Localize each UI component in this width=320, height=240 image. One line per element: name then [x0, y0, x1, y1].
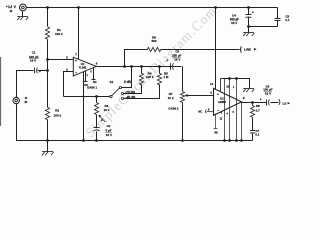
- svg-text:2.7: 2.7: [256, 108, 261, 112]
- label pin 3: [66, 56, 68, 60]
- wire C4 bottom lead: [248, 18, 250, 27]
- resistor R2: [45, 107, 49, 119]
- svg-text:+: +: [75, 59, 77, 63]
- svg-text:16 V: 16 V: [30, 59, 36, 63]
- wire C1 to bias node: [38, 70, 48, 72]
- label pin 7: [75, 52, 77, 56]
- node rail-pin7: [77, 6, 80, 9]
- label R2: [54, 109, 62, 118]
- capacitor C5: [275, 19, 281, 21]
- label pin 3: [221, 112, 223, 115]
- capacitor C2: [94, 128, 100, 131]
- wire U1 pin4 to ground rail: [83, 72, 85, 141]
- switch S1 pole: [110, 95, 112, 97]
- wire +12V rail: [27, 7, 278, 9]
- op-amp U2: [214, 88, 242, 115]
- wire U2 gnd pin d: [241, 103, 243, 141]
- node bias-pin3: [46, 58, 49, 61]
- label -40 dB: [126, 96, 136, 100]
- svg-text:+: +: [39, 70, 41, 74]
- node rail-R2gnd: [46, 139, 49, 142]
- wire R8 top lead: [252, 103, 254, 106]
- svg-text:U1: U1: [81, 62, 85, 66]
- node bus-riser: [123, 65, 126, 68]
- resistor R6: [147, 47, 160, 51]
- connector LINE out: [240, 46, 241, 52]
- node pin4-rail: [82, 139, 85, 142]
- capacitor C4: [246, 15, 252, 18]
- svg-text:560: 560: [151, 39, 156, 43]
- wire C4-C5 bottom: [249, 26, 278, 28]
- wire U1 output bus: [96, 66, 182, 68]
- capacitor C3: [171, 63, 174, 70]
- capacitor C6: [267, 100, 270, 106]
- node gndpin-b: [228, 139, 231, 142]
- wire R3 top lead: [96, 97, 98, 103]
- node rail-R1: [46, 6, 49, 9]
- label GAIN 2: [168, 106, 178, 110]
- connector J1 input jack: [13, 97, 19, 103]
- pin 1 NC stub: [84, 71, 88, 82]
- svg-text:1 M: 1 M: [163, 75, 169, 79]
- node C2-rail: [95, 139, 98, 142]
- label C1 plus: [39, 70, 41, 74]
- wire C7 to rail: [252, 134, 254, 141]
- svg-text:16 V: 16 V: [106, 133, 112, 137]
- label 0 dB: [124, 80, 132, 84]
- node pin4-feedback cross: [83, 96, 85, 98]
- wire U2 top ground: [221, 79, 250, 89]
- connector LS out: [279, 99, 280, 105]
- svg-text:C2: C2: [106, 124, 110, 128]
- label C5: [285, 14, 290, 22]
- label pin 11: [233, 86, 235, 89]
- label U2 bottom NC: [214, 131, 218, 134]
- label LINE: [244, 47, 251, 51]
- R7 wiper arrow: [184, 94, 213, 97]
- potentiometer R3: [94, 103, 98, 115]
- svg-text:0.1: 0.1: [255, 132, 259, 136]
- label R4: [146, 71, 154, 79]
- node gndpin-a: [223, 139, 226, 142]
- wire C5 bottom lead: [277, 21, 279, 27]
- svg-text:+: +: [166, 58, 168, 62]
- node bus-R5: [158, 65, 161, 68]
- svg-text:C1: C1: [32, 50, 36, 54]
- label R5: [163, 71, 169, 79]
- wire pin3: [48, 59, 74, 61]
- svg-text:16 V: 16 V: [231, 21, 237, 25]
- svg-text:16 V: 16 V: [174, 58, 180, 62]
- label pin 6: [96, 61, 98, 65]
- label C7: [255, 129, 259, 136]
- svg-text:10 k: 10 k: [168, 96, 174, 100]
- label C4: [230, 13, 240, 25]
- wire J1 ground lead: [17, 104, 48, 141]
- svg-text:NC: NC: [198, 110, 202, 114]
- svg-text:LS: LS: [283, 101, 287, 105]
- U2 pin7 NC stub: [214, 114, 218, 129]
- label +12 V: [6, 5, 17, 9]
- svg-text:100 k: 100 k: [146, 75, 154, 79]
- label pin 5: [90, 71, 92, 74]
- svg-text:-40 dB: -40 dB: [126, 96, 136, 100]
- label C1: [29, 50, 39, 62]
- svg-text:+: +: [260, 98, 262, 102]
- label -20 dB: [125, 90, 135, 94]
- svg-text:16 V: 16 V: [265, 92, 271, 96]
- wire C2 to rail: [96, 132, 98, 141]
- resistor R5: [157, 73, 161, 85]
- wire bus corner to R7: [182, 67, 184, 92]
- node U2top-3: [235, 77, 238, 80]
- label pin 10: [226, 85, 229, 88]
- pin 5 NC stub: [92, 68, 96, 80]
- node feedback-R3: [95, 95, 98, 98]
- label U2 pin6 NC: [198, 110, 202, 114]
- label J2: [9, 9, 12, 13]
- svg-text:NC: NC: [93, 80, 97, 84]
- switch contact 0dB: [119, 86, 121, 88]
- svg-text:+: +: [217, 93, 219, 97]
- svg-text:GAIN 1: GAIN 1: [87, 85, 97, 89]
- wire pin2 feedback down: [64, 72, 74, 97]
- label C2: [105, 124, 112, 137]
- svg-text:100 k: 100 k: [55, 32, 63, 36]
- label C2 plus: [101, 118, 103, 122]
- R3 wiper arrow: [98, 115, 105, 122]
- switch contact -20dB: [121, 92, 123, 94]
- wire pin7 from rail: [78, 8, 80, 60]
- label GAIN 1: [87, 85, 97, 89]
- wire R2 bottom lead: [47, 120, 49, 141]
- label R6: [151, 36, 156, 44]
- label R3: [104, 104, 110, 112]
- resistor R8: [250, 106, 254, 118]
- wire U2 gnd pin c: [236, 79, 238, 141]
- node out-R8: [251, 101, 254, 104]
- label J1: [24, 96, 27, 104]
- potentiometer R7: [180, 92, 184, 103]
- wire U2 output: [242, 102, 267, 104]
- wire R4 top lead: [141, 67, 143, 74]
- node gndpin-c: [235, 139, 238, 142]
- label C6: [263, 85, 273, 96]
- svg-text:10 k: 10 k: [104, 108, 110, 112]
- ground at U2 top: [243, 89, 254, 93]
- svg-text:100 k: 100 k: [54, 113, 62, 117]
- svg-text:+: +: [252, 10, 254, 14]
- capacitor C1: [35, 68, 38, 74]
- label S1: [110, 80, 114, 84]
- wire riser to R6: [125, 50, 148, 67]
- scan edge artifact: [0, 57, 1, 126]
- node U2top-2: [228, 77, 231, 80]
- ground at C4: [243, 27, 254, 37]
- label R7: [168, 92, 174, 100]
- wire -20dB to R4: [124, 85, 142, 94]
- label NC pin5: [93, 80, 97, 84]
- label C3: [172, 50, 182, 62]
- svg-text:LM380: LM380: [218, 100, 227, 104]
- label pin 2: [66, 67, 68, 71]
- resistor R4: [139, 73, 143, 85]
- svg-text:U2: U2: [220, 96, 224, 100]
- wire U2 pin10 stub: [220, 79, 222, 92]
- node bus-R4: [140, 65, 143, 68]
- wire U2 pin14 from rail: [215, 8, 217, 90]
- LS arrow: [288, 102, 291, 104]
- svg-text:GAIN 2: GAIN 2: [168, 106, 178, 110]
- resistor R1: [45, 27, 49, 39]
- svg-text:NC: NC: [214, 131, 218, 134]
- label pin 12: [220, 118, 223, 121]
- wire ground rail: [17, 140, 253, 142]
- wire C6 to LS: [271, 102, 279, 104]
- label R1: [55, 28, 63, 36]
- svg-text:IN: IN: [25, 100, 28, 104]
- ground at J2: [17, 11, 28, 21]
- node rail-C4: [247, 6, 250, 9]
- label R8: [256, 104, 261, 112]
- wire R7 bottom lead: [182, 103, 184, 141]
- svg-text:TL081: TL081: [79, 66, 87, 70]
- wire R5 top lead: [159, 67, 161, 74]
- wire C5 top lead: [277, 8, 279, 19]
- label pin 5: [233, 111, 235, 114]
- wire R1 top lead: [47, 8, 49, 27]
- wire U2 gnd pin a: [224, 79, 226, 141]
- svg-text:0 dB: 0 dB: [124, 80, 132, 84]
- svg-text:0.1: 0.1: [285, 18, 290, 22]
- wire R8 to C7: [252, 118, 254, 131]
- wire 0dB to bus: [122, 67, 132, 88]
- wire J1 to C1: [17, 71, 34, 98]
- label pin 1: [87, 74, 89, 77]
- switch S1 arm: [112, 88, 120, 96]
- node bus-0dB: [130, 65, 133, 68]
- node C4-gnd: [247, 25, 250, 28]
- label C4 plus: [252, 10, 254, 14]
- svg-text:−: −: [75, 71, 77, 75]
- connector J2 +12V jack: [20, 4, 27, 11]
- wire C4 top lead: [248, 8, 250, 15]
- label pin 14: [210, 82, 214, 86]
- svg-text:+: +: [101, 118, 103, 122]
- switch contact -40dB: [121, 97, 123, 99]
- label pin 8: [243, 96, 245, 100]
- ground at rail: [42, 141, 54, 156]
- svg-text:-20 dB: -20 dB: [125, 90, 135, 94]
- node gndpin-d: [240, 139, 243, 142]
- svg-text:R2: R2: [55, 109, 59, 113]
- label C3 plus: [166, 58, 168, 62]
- node R7-rail: [181, 139, 184, 142]
- svg-text:LINE: LINE: [244, 47, 251, 51]
- svg-text:−: −: [217, 109, 219, 113]
- node bias-C1: [46, 69, 49, 72]
- label NC pin1: [84, 83, 88, 87]
- watermark SimpleCircuitDiagram.Com: [83, 3, 220, 140]
- label U2 pin 2: [210, 90, 212, 94]
- wire R3 to C2: [96, 115, 98, 128]
- wire R6 to LINE: [161, 49, 240, 51]
- capacitor C7: [250, 131, 255, 133]
- op-amp U1: [73, 57, 96, 76]
- wire R1-R2 vertical: [47, 40, 49, 108]
- label U2 pin 6: [208, 107, 210, 111]
- LINE arrow: [254, 48, 257, 51]
- label C6 plus: [260, 98, 262, 102]
- svg-text:14: 14: [210, 82, 214, 86]
- wire feedback bus: [64, 96, 110, 98]
- wire -40dB to R5: [124, 85, 160, 99]
- U2 pin6 NC stub: [205, 109, 213, 113]
- svg-text:+12 V: +12 V: [6, 5, 17, 9]
- wire U2 gnd pin b: [229, 79, 231, 141]
- node rail-U2pin14: [214, 6, 217, 9]
- svg-text:S1: S1: [110, 80, 114, 84]
- label pin 4: [226, 113, 228, 116]
- label LS: [283, 101, 287, 105]
